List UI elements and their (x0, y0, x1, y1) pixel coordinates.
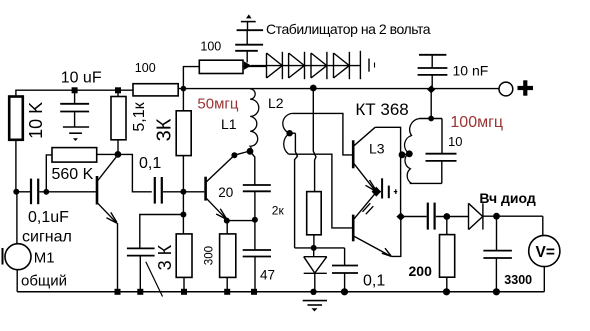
node trimmer-rail (137, 289, 143, 295)
svg-text:10: 10 (448, 134, 462, 149)
capacitor C8 0,1 (emitter bypass) (344, 248, 346, 266)
inductor L1/L2 coil (250, 89, 259, 152)
wire tank top row (419, 118, 442, 120)
node common emitter point (372, 187, 381, 197)
svg-text:20: 20 (218, 185, 233, 200)
wire collector Q1 to C4 (118, 154, 152, 191)
resistor R8 300 (226, 221, 228, 234)
node C12 top junction (493, 213, 500, 220)
capacitor C7 47 (243, 249, 271, 251)
transistor Q1 (96, 176, 99, 205)
wire C4 to Q2 base (163, 191, 204, 193)
svg-text:3 К: 3 К (155, 244, 175, 270)
wire tank bottom row (410, 182, 442, 184)
capacitor C2 (top, with antenna mark) (246, 14, 252, 18)
ground symbol below rail (303, 300, 327, 302)
wire ground rail (bottom) (17, 291, 544, 293)
svg-text:2к: 2к (272, 204, 285, 218)
node R8-rail (224, 289, 230, 295)
node emitter-rail (115, 289, 121, 295)
wire diode to meter (483, 215, 543, 217)
node R10-rail (443, 288, 450, 295)
diode VD5 (to ground) (313, 248, 315, 257)
node L coil bottom (247, 148, 254, 155)
svg-text:0,1uF: 0,1uF (28, 209, 69, 226)
node T1 centre tap (286, 130, 292, 136)
node VD5-rail (310, 289, 316, 295)
diode VD4 (334, 53, 350, 78)
wire rail down to bias resistor (with hop jog) (313, 88, 316, 192)
wire meter drop (542, 216, 544, 235)
svg-text:3300: 3300 (504, 273, 532, 287)
svg-text:КТ 368: КТ 368 (355, 100, 408, 119)
svg-text:5,1к: 5,1к (131, 101, 148, 131)
capacitor C3 0,1uF (series) (30, 179, 32, 205)
svg-text:М1: М1 (34, 250, 55, 267)
svg-text:Стабилищатор на 2 вольта: Стабилищатор на 2 вольта (266, 21, 431, 37)
wire L bottom down to C6 (250, 151, 255, 185)
svg-text:L3: L3 (369, 141, 385, 157)
node tank top (428, 116, 434, 122)
node arrow junction at stabilizer input (244, 61, 252, 70)
node C12-rail (493, 288, 500, 295)
node R7-rail (181, 289, 187, 295)
resistor R3 100 (series in supply) (133, 84, 178, 96)
node C8-rail (341, 288, 348, 295)
cathode end bars (359, 51, 361, 79)
resistor R2 5,1k (117, 90, 119, 96)
wire Q3 collector to output column (375, 127, 401, 216)
capacitor C11 (detector coupling) (427, 203, 429, 230)
wire R5 to diode chain (243, 65, 267, 67)
resistor R7 3K (lower) (176, 234, 192, 278)
capacitor C4 0,1 (series) (154, 177, 156, 204)
wire tap to vertical (290, 132, 296, 134)
resistor R10 200 (446, 217, 448, 235)
node trimmer wire junction (180, 212, 186, 218)
diode VD1 (267, 53, 283, 78)
terminal circle output + (499, 82, 513, 96)
node supply-R2 junction (115, 87, 121, 93)
resistor R4 3K (upper) (182, 89, 184, 111)
resistor R9 (bias) (307, 192, 322, 235)
svg-text:сигнал: сигнал (22, 228, 72, 245)
svg-text:50мгц: 50мгц (197, 96, 238, 113)
gate bar 2 (388, 186, 390, 199)
wire top-left supply y=90 (16, 90, 133, 96)
node R4-base junction (180, 189, 186, 195)
node Q2 emitter junction (224, 218, 230, 224)
gate bar 1 (381, 178, 383, 198)
node Q1 collector junction (115, 151, 122, 158)
voltmeter V= (529, 235, 560, 266)
capacitor C12 3300 (496, 216, 498, 250)
capacitor C9 10nF (419, 54, 446, 56)
node R9-diode junction (311, 245, 317, 251)
svg-text:3К: 3К (154, 118, 176, 141)
wire vertical tap down (with hop jog) (295, 133, 298, 248)
wire main supply rail y=88.6 (178, 88, 499, 90)
wire C3 to Q1 base (39, 191, 96, 193)
trimmer capacitor C5 (127, 247, 155, 249)
svg-text:10 K: 10 K (26, 102, 46, 139)
svg-text:300: 300 (204, 246, 216, 265)
node output column junction (396, 213, 405, 221)
transistor Q3 (352, 140, 355, 168)
wire R1 bottom to base node (15, 140, 17, 192)
transistor Q4 (352, 215, 355, 242)
wire emitter to C6 column (227, 220, 255, 222)
svg-text:Вч диод: Вч диод (479, 190, 535, 206)
wire to trimmer cap (140, 215, 184, 249)
wire branch up to R5 100 (183, 67, 199, 89)
transformer coil T1 (283, 113, 293, 154)
node on C6 column (252, 217, 258, 223)
wire Q1 emitter down to ground rail (117, 223, 119, 292)
resistor R5 100 (stabilizer feed) (199, 60, 243, 73)
node rail-R4 3K top (181, 86, 187, 92)
node R10 top junction (443, 213, 450, 220)
svg-text:100: 100 (200, 39, 221, 53)
svg-text:V=: V= (536, 244, 555, 261)
resistor R6 560K (52, 148, 97, 163)
wire T1 bottom to Q4 base (jogged line) (289, 154, 353, 228)
wire tap link to L coil bottom (234, 152, 248, 156)
wire diode bias row (295, 247, 345, 249)
wire 560K left leg (46, 155, 52, 192)
wire base node to C3 (16, 191, 30, 193)
node tank tap dots (399, 151, 406, 158)
capacitor C1 10uF (74, 90, 76, 104)
capacitor C10 10 (tank) (441, 119, 443, 154)
svg-text:0,1: 0,1 (363, 273, 385, 290)
plus symbol (518, 86, 534, 90)
node C7-rail (251, 289, 257, 295)
node Q2 collector tap (231, 152, 237, 158)
svg-text:L1: L1 (221, 116, 237, 132)
svg-text:100: 100 (135, 61, 156, 75)
svg-text:10 uF: 10 uF (61, 70, 102, 87)
inductor L4 (tank coil) (405, 119, 419, 184)
wire T1 top to Q3 base feed (292, 113, 352, 154)
wire 560K right to collector node (97, 153, 118, 155)
wire tank feed (430, 89, 432, 118)
svg-text:L2: L2 (268, 95, 284, 111)
node supply-C 10uF junction (72, 87, 78, 93)
diode VD6 Вч диод (469, 203, 483, 229)
microphone M1 (5, 244, 31, 270)
node 560K left junction (43, 189, 49, 195)
wire output row y=216.5 (405, 216, 427, 218)
svg-text:10 nF: 10 nF (453, 63, 489, 79)
wire diode chain (251, 65, 360, 67)
svg-text:100мгц: 100мгц (450, 114, 503, 131)
wire R9 bottom to diode node (313, 235, 315, 248)
node rail-tank junction (427, 85, 435, 93)
wire Q4 emitter to output column (391, 217, 401, 257)
capacitor C6 (to 2k label) (243, 184, 271, 186)
ground below C1 (63, 126, 89, 128)
svg-text:0,1: 0,1 (139, 155, 161, 172)
diode VD3 (311, 53, 327, 78)
node base wire left (mic/cap junction) (13, 189, 19, 195)
svg-text:200: 200 (409, 263, 433, 279)
resistor R1 10K (9, 97, 23, 140)
transistor Q2 (204, 177, 207, 201)
pin tick mark (395, 189, 397, 194)
svg-text:общий: общий (21, 272, 67, 289)
svg-text:560 K: 560 K (52, 166, 94, 183)
svg-text:47: 47 (260, 268, 275, 283)
node rail-stabilizer return (310, 85, 317, 92)
diode VD2 (289, 53, 305, 78)
